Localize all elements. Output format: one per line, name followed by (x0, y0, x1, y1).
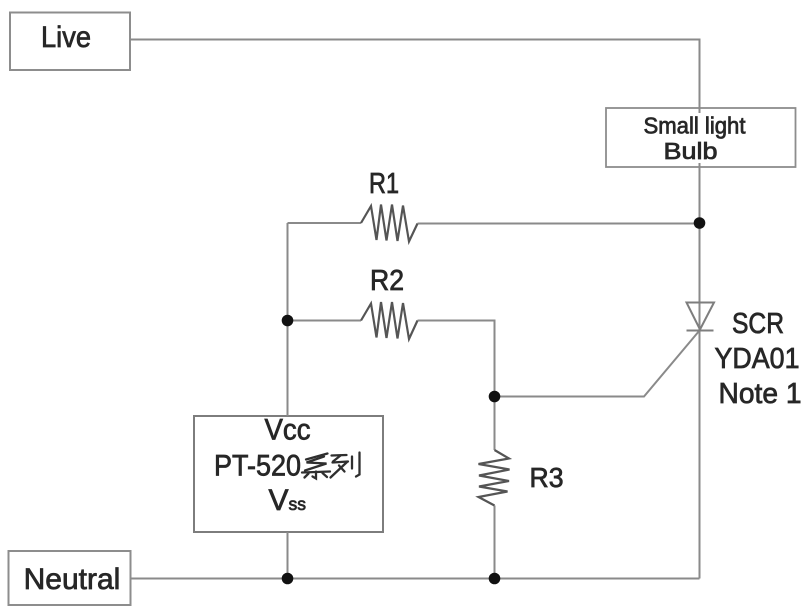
svg-text:V: V (269, 484, 289, 517)
svg-text:Neutral: Neutral (24, 563, 121, 596)
svg-text:ss: ss (289, 494, 307, 514)
wire: node to R3 top (494, 397, 496, 451)
wire: R3 bottom to bottom rail (494, 506, 496, 579)
junction dot PT-520 to bottom rail (282, 573, 294, 585)
svg-text:Live: Live (41, 21, 91, 54)
wire: R1 branch left segment (288, 222, 362, 224)
junction dot R3 to bottom rail (489, 573, 501, 585)
wire: R2 branch right segment and down to gate node (418, 321, 495, 397)
svg-text:PT-520: PT-520 (214, 450, 301, 483)
junction dot at bulb/R1 node (694, 217, 706, 229)
component box Small light Bulb (606, 108, 796, 167)
svg-text:Small light: Small light (644, 113, 746, 139)
wire: PT-520 box bottom to bottom rail (287, 532, 289, 579)
terminal box Live (10, 13, 130, 71)
svg-text:R3: R3 (530, 462, 564, 493)
resistor R2 (361, 302, 418, 339)
wire: Live to top-right corner down right side (130, 40, 700, 579)
junction dot at gate node (489, 391, 501, 403)
glyph 列 (hand drawn) (331, 453, 360, 478)
svg-text:YDA01: YDA01 (715, 343, 800, 375)
svg-text:Vcc: Vcc (265, 414, 311, 447)
resistor R1 (361, 205, 418, 242)
thyristor SCR: cathode bar (687, 330, 714, 332)
glyph 系 (hand drawn) (302, 454, 330, 479)
svg-text:Note 1: Note 1 (719, 378, 802, 410)
white backing for bulb text over wire (642, 113, 748, 163)
svg-text:SCR: SCR (732, 308, 784, 340)
wire: R2 branch left segment (288, 320, 362, 322)
component box PT-520 module (194, 416, 383, 532)
wire: left vertical from R1 to PT-520 box (287, 223, 289, 416)
junction dot at R2 tap on left vertical (282, 315, 294, 327)
wire: bottom rail from Neutral (131, 578, 700, 580)
svg-text:R1: R1 (369, 168, 399, 200)
wire: gate wire from node to SCR (495, 331, 700, 397)
thyristor SCR: triangle (687, 303, 715, 330)
svg-text:R2: R2 (370, 265, 404, 297)
terminal box Neutral (9, 551, 131, 605)
wire: R1 branch right segment (418, 223, 700, 225)
svg-text:Bulb: Bulb (664, 138, 718, 164)
resistor R3 (479, 450, 510, 506)
